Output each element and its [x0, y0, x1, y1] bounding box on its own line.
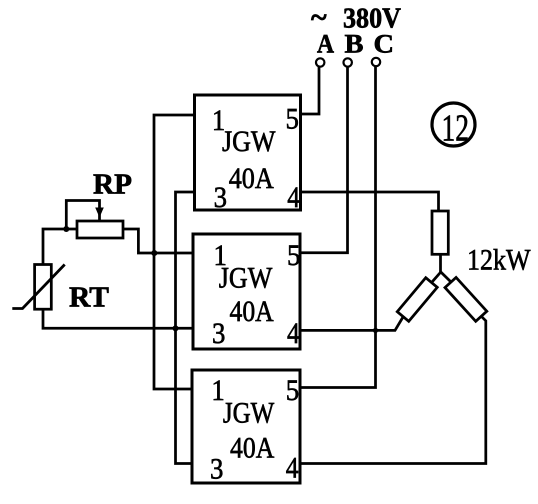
wire R3 to U3 pin4	[300, 316, 486, 463]
svg-text:B: B	[345, 29, 364, 58]
svg-text:4: 4	[287, 181, 300, 214]
wire star point to R3	[441, 272, 451, 282]
wire bus pins-3	[176, 192, 195, 464]
svg-text:40A: 40A	[230, 432, 275, 465]
SSR box U2 JGW 40A	[193, 234, 300, 349]
terminal B	[344, 58, 352, 66]
svg-text:JGW: JGW	[219, 262, 273, 295]
wire RP left	[43, 229, 77, 265]
svg-text:5: 5	[286, 374, 299, 407]
svg-text:RP: RP	[93, 170, 132, 201]
SSR box U1 JGW 40A	[195, 95, 301, 210]
terminal A	[316, 58, 324, 66]
wire RP right	[123, 229, 193, 253]
svg-text:12: 12	[442, 108, 470, 150]
junction dot C line / U2 pin4	[373, 328, 378, 333]
wire phase B drop	[300, 67, 348, 253]
svg-text:40A: 40A	[229, 162, 274, 195]
svg-text:A: A	[317, 29, 334, 58]
svg-text:4: 4	[286, 452, 299, 485]
junction dot bus1 / U2 pin1	[151, 250, 157, 256]
terminal C	[372, 58, 380, 66]
thermistor RT diagonal	[12, 265, 64, 309]
junction dot bus2 / U2 pin3	[173, 325, 179, 331]
wire U1 pin4 to heater R1	[301, 192, 439, 211]
heater resistor R1 vertical	[432, 211, 448, 254]
arrow head RP wiper	[95, 208, 104, 218]
svg-text:4: 4	[287, 317, 300, 350]
wire bus pins-1	[154, 115, 195, 389]
svg-text:3: 3	[210, 453, 223, 486]
heater resistor R3 right diagonal	[445, 277, 487, 321]
svg-text:5: 5	[287, 239, 300, 272]
svg-text:40A: 40A	[230, 295, 274, 328]
svg-text:3: 3	[214, 181, 227, 214]
wire RP wiper loop	[66, 201, 99, 230]
svg-text:3: 3	[212, 317, 225, 350]
svg-text:JGW: JGW	[222, 125, 276, 158]
wire phase A drop	[301, 67, 320, 114]
potentiometer RP body	[77, 221, 123, 238]
svg-text:JGW: JGW	[223, 397, 275, 430]
SSR box U3 JGW 40A	[192, 370, 300, 483]
junction dot RP left	[63, 226, 69, 232]
svg-text:12kW: 12kW	[467, 244, 531, 277]
figure number circle 12	[432, 103, 475, 146]
wire R2 to U2 pin4	[300, 317, 403, 331]
svg-text:C: C	[374, 29, 395, 58]
wire star point to R2	[432, 272, 441, 282]
svg-text:5: 5	[286, 103, 299, 136]
wire RT bottom	[43, 309, 193, 328]
wire R1 to star point	[439, 254, 442, 272]
wire phase C drop	[300, 66, 376, 388]
svg-text:RT: RT	[69, 283, 109, 314]
heater resistor R2 left diagonal	[397, 278, 437, 322]
thermistor RT body	[35, 265, 52, 310]
